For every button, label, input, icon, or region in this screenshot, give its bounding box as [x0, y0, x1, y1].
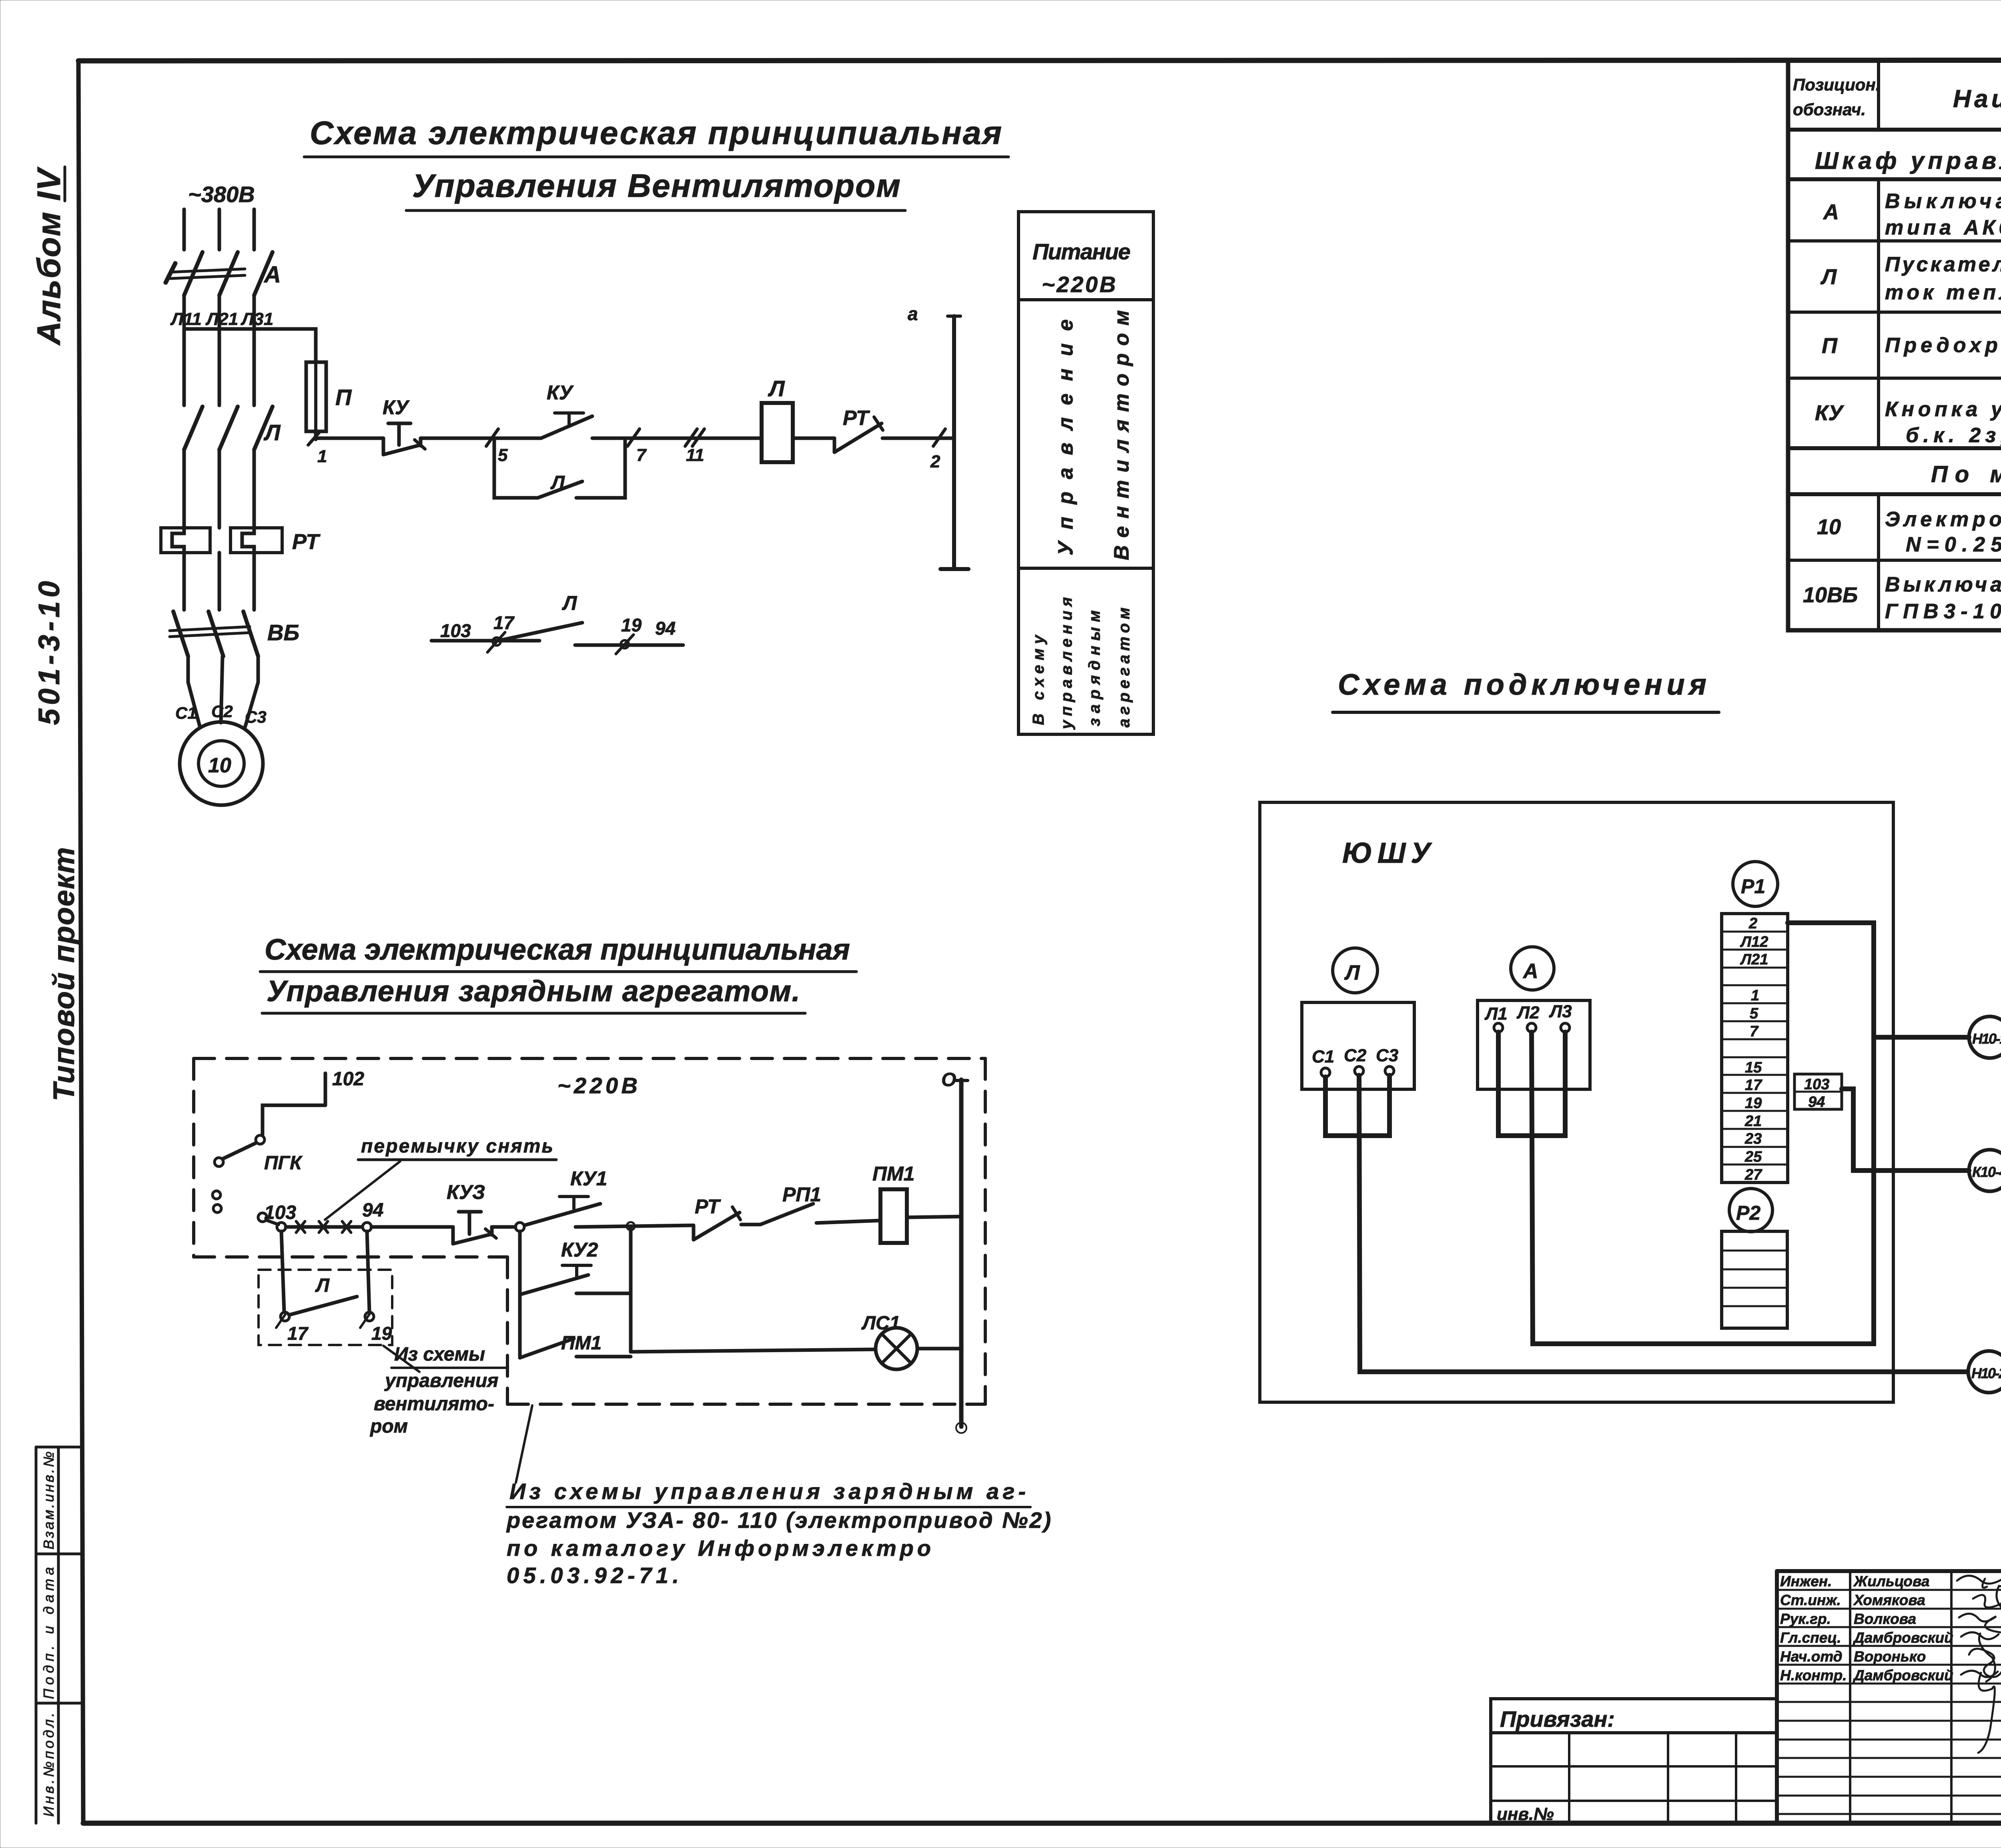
- dashed boundary box: [194, 1058, 985, 1404]
- svg-text:РТ: РТ: [843, 407, 870, 430]
- svg-text:Рук.гр.: Рук.гр.: [1780, 1611, 1831, 1627]
- svg-text:Дамбровский: Дамбровский: [1853, 1667, 1953, 1684]
- branch vertical at node KU1: [518, 1231, 522, 1358]
- svg-text:перемычку снять: перемычку снять: [361, 1136, 553, 1157]
- svg-text:Хомякова: Хомякова: [1853, 1592, 1925, 1608]
- svg-text:Н10-1: Н10-1: [1972, 1030, 2001, 1047]
- label В схему управления зарядным агрегатом (rotated): [1030, 634, 1047, 725]
- svg-text:Управления Вентилятором: Управления Вентилятором: [412, 168, 900, 204]
- svg-text:ток теплового реле 1.25А: ток теплового реле 1.25А: [1885, 281, 2001, 304]
- svg-text:ЛС1: ЛС1: [861, 1313, 900, 1334]
- motor 10 outer circle: [180, 722, 263, 805]
- component table: [1788, 60, 2001, 630]
- wire RT to node 2: [882, 437, 954, 440]
- wire fuse to node 1: [314, 431, 318, 439]
- svg-text:103: 103: [1804, 1076, 1829, 1093]
- node 5: [486, 429, 508, 465]
- svg-text:Шкаф управления ЮШУ (ШУ5101-03: Шкаф управления ЮШУ (ШУ5101-03В2А): [1815, 147, 2001, 174]
- self-hold branch wire: [494, 438, 538, 498]
- svg-text:11: 11: [686, 445, 704, 465]
- label Управление Вентилятором (rotated): [1054, 319, 1077, 555]
- svg-text:вентилято-: вентилято-: [374, 1393, 494, 1415]
- svg-text:Наименование: Наименование: [1953, 85, 2001, 113]
- svg-text:19: 19: [621, 615, 642, 635]
- phase wire L2 lower: [218, 451, 221, 528]
- switch VB crossbar: [170, 627, 250, 637]
- wire RP1 to PM1: [816, 1221, 880, 1223]
- svg-text:К10-4: К10-4: [1972, 1164, 2001, 1180]
- svg-text:С3: С3: [245, 708, 267, 726]
- svg-text:94: 94: [362, 1200, 383, 1221]
- svg-text:17: 17: [1745, 1077, 1762, 1094]
- privyazan box: [1491, 1699, 1777, 1733]
- fuse P: [306, 362, 326, 431]
- svg-text:501-3-10: 501-3-10: [32, 581, 66, 725]
- svg-text:1: 1: [317, 447, 327, 466]
- svg-text:23: 23: [1744, 1130, 1762, 1147]
- phase wire L3 below RT: [253, 553, 256, 610]
- terminal strip P1: [1722, 914, 1788, 1183]
- table header texts: [1793, 75, 2001, 119]
- phase wire L2 below RT: [218, 553, 221, 610]
- svg-text:регатом УЗА- 80- 110 (электроп: регатом УЗА- 80- 110 (электропривод №2): [506, 1507, 1051, 1533]
- svg-text:19: 19: [371, 1323, 392, 1344]
- svg-text:Л2: Л2: [1516, 1003, 1540, 1022]
- table row A: [1823, 190, 2001, 239]
- breaker A crossbar: [166, 263, 245, 283]
- wire PM1 to bus O: [907, 1217, 961, 1217]
- svg-text:Электродвигатель типа В63А4: Электродвигатель типа В63А4: [1885, 508, 2001, 531]
- terminal pins C1 C2 C3: [1321, 1068, 1330, 1077]
- svg-text:Питание: Питание: [1033, 239, 1131, 264]
- svg-text:С3: С3: [1376, 1046, 1398, 1065]
- svg-text:КУ1: КУ1: [570, 1167, 607, 1190]
- svg-text:Из схемы: Из схемы: [394, 1344, 485, 1365]
- breaker A terminal box: [1478, 1000, 1590, 1089]
- svg-text:Л12: Л12: [1740, 934, 1768, 950]
- svg-text:Л: Л: [768, 376, 785, 401]
- svg-text:КУ2: КУ2: [561, 1239, 598, 1261]
- wire KU3 to node: [492, 1225, 515, 1229]
- node 103: [264, 1202, 296, 1231]
- svg-text:05.03.92-71.: 05.03.92-71.: [507, 1563, 679, 1588]
- svg-text:Вентилятором: Вентилятором: [1110, 310, 1133, 560]
- contactor coil L: [762, 403, 793, 462]
- svg-text:25: 25: [1744, 1148, 1762, 1165]
- node 11: [685, 429, 704, 465]
- P1 terminal numbers: [1740, 915, 1768, 1183]
- svg-text:Схема электрическая принципиал: Схема электрическая принципиальная: [265, 933, 850, 966]
- signature squiggles: [1957, 1576, 2001, 1753]
- svg-text:Жильцова: Жильцова: [1853, 1573, 1929, 1589]
- svg-text:по каталогу Информэлектро: по каталогу Информэлектро: [507, 1535, 931, 1561]
- privyazan grid: [1491, 1733, 1777, 1824]
- contactor L terminal box: [1302, 1002, 1414, 1089]
- title block outer: [1777, 1571, 2001, 1823]
- phase wire L3 mid: [253, 296, 256, 405]
- note Из схемы управления зарядным агрегатом: [506, 1405, 1051, 1588]
- signature table grid: [1777, 1571, 2001, 1823]
- table row 10: [1817, 508, 2001, 556]
- aux contact PM1 (NO): [520, 1333, 631, 1358]
- svg-text:Л: Л: [1344, 961, 1360, 984]
- left margin label: Типовой проект: [47, 847, 80, 1101]
- push button KU (stop, NC): [383, 396, 425, 455]
- phase wire L3 lower: [253, 451, 256, 528]
- self-hold branch wire right: [576, 438, 625, 498]
- motor 10 inner circle: [198, 741, 244, 786]
- svg-text:2: 2: [1748, 915, 1757, 932]
- svg-text:10: 10: [208, 754, 231, 777]
- svg-text:17: 17: [287, 1323, 309, 1344]
- motor feeder wires: [188, 656, 258, 728]
- node 94: [362, 1200, 383, 1231]
- control wire node7 to node 11: [592, 437, 762, 440]
- svg-text:Дамбровский: Дамбровский: [1853, 1630, 1953, 1646]
- svg-text:Предохранитель типа ПРС-6-П: Предохранитель типа ПРС-6-П: [1885, 334, 2001, 357]
- wire 103/94 to K10-4: [1842, 1089, 1969, 1171]
- svg-text:~380В: ~380В: [188, 182, 255, 207]
- contactor coil PM1: [872, 1163, 914, 1243]
- note Из схемы управления вентилятором: [369, 1344, 507, 1437]
- svg-text:103: 103: [264, 1202, 296, 1223]
- svg-text:Управление: Управление: [1054, 319, 1077, 555]
- svg-text:зарядным: зарядным: [1086, 610, 1103, 726]
- svg-text:типа АК63-3МГ, Ун.р.=1.6А: типа АК63-3МГ, Ун.р.=1.6А: [1885, 216, 2001, 239]
- cable marker H10-2: [1968, 1351, 2001, 1393]
- svg-text:Н10-2: Н10-2: [1971, 1365, 2001, 1381]
- svg-text:О: О: [941, 1069, 956, 1090]
- svg-text:ВБ: ВБ: [267, 620, 299, 645]
- svg-text:Ст.инж.: Ст.инж.: [1780, 1592, 1841, 1608]
- wire KU1 to RT: [575, 1225, 694, 1227]
- svg-text:Л: Л: [1820, 265, 1837, 289]
- svg-text:17: 17: [493, 612, 515, 633]
- power column box: [1019, 212, 1153, 734]
- svg-text:Л1: Л1: [1484, 1004, 1508, 1024]
- phase wire L3 top: [253, 209, 256, 250]
- svg-text:КУ: КУ: [547, 381, 574, 404]
- svg-text:ЮШУ: ЮШУ: [1342, 837, 1432, 869]
- cable marker H10-1: [1969, 1016, 2001, 1058]
- wire terminal 2: [1788, 920, 1874, 925]
- svg-text:Схема подключения: Схема подключения: [1338, 668, 1706, 701]
- svg-text:10: 10: [1817, 515, 1841, 539]
- svg-text:Л21: Л21: [205, 309, 238, 329]
- phase wire L2 mid: [218, 296, 221, 405]
- left bottom stamp strip: [36, 1447, 82, 1823]
- svg-text:Инжен.: Инжен.: [1780, 1573, 1832, 1589]
- svg-text:Позицион.: Позицион.: [1793, 75, 1880, 94]
- svg-text:С2: С2: [1344, 1046, 1367, 1065]
- svg-text:С2: С2: [211, 702, 233, 721]
- svg-text:ром: ром: [369, 1416, 408, 1437]
- svg-text:С1: С1: [1312, 1047, 1334, 1066]
- switch VB blades: [173, 611, 258, 656]
- push button KU3 (NC): [447, 1181, 496, 1244]
- svg-text:А: А: [1522, 960, 1538, 983]
- jumper section with x marks: [286, 1221, 362, 1233]
- svg-text:102: 102: [332, 1068, 364, 1090]
- svg-text:7: 7: [1750, 1023, 1759, 1040]
- svg-text:Н.контр.: Н.контр.: [1780, 1667, 1847, 1684]
- breaker A blades: [184, 252, 273, 295]
- push button KU (start, NO): [541, 381, 592, 438]
- junction dot: [627, 1222, 635, 1230]
- terminal strip P1 circle: [1733, 862, 1778, 906]
- node 2: [930, 429, 945, 471]
- svg-text:РП1: РП1: [782, 1183, 821, 1206]
- svg-text:Альбом IV: Альбом IV: [31, 166, 67, 346]
- aux contact L box (dashed): [259, 1231, 392, 1345]
- svg-text:Подп. и дата: Подп. и дата: [40, 1567, 57, 1699]
- title underline: [304, 156, 1009, 158]
- svg-text:РТ: РТ: [292, 530, 321, 554]
- svg-text:94: 94: [655, 618, 676, 639]
- svg-text:~220В: ~220В: [1042, 272, 1116, 297]
- svg-text:103: 103: [440, 620, 471, 641]
- svg-text:21: 21: [1744, 1113, 1762, 1130]
- title underline: [406, 209, 905, 212]
- aux contact L (to charging scheme) wires 17-19: [431, 592, 683, 654]
- svg-text:РТ: РТ: [695, 1195, 721, 1218]
- svg-text:Воронько: Воронько: [1854, 1648, 1926, 1665]
- svg-text:А: А: [263, 262, 281, 288]
- svg-text:Волкова: Волкова: [1854, 1611, 1916, 1627]
- svg-text:ПГК: ПГК: [264, 1152, 303, 1174]
- svg-text:КУ: КУ: [1815, 401, 1844, 425]
- svg-text:~220В: ~220В: [557, 1073, 638, 1098]
- terminal strip P2 circle: [1729, 1189, 1772, 1232]
- svg-text:Управления зарядным агрегатом.: Управления зарядным агрегатом.: [267, 974, 800, 1008]
- svg-text:Инв.№подл.: Инв.№подл.: [40, 1713, 57, 1817]
- signature rows text: [1780, 1573, 1953, 1684]
- svg-text:агрегатом: агрегатом: [1115, 607, 1133, 728]
- svg-text:5: 5: [498, 445, 508, 465]
- lamp LS1 wire: [631, 1349, 876, 1352]
- bus O: [941, 1069, 968, 1433]
- cable marker K10-4: [1969, 1150, 2001, 1191]
- terminal pins L1 L2 L3: [1494, 1023, 1503, 1032]
- table row 10VB: [1803, 573, 2001, 623]
- svg-text:ГПВ3-10, ~380В; 6.3А: ГПВ3-10, ~380В; 6.3А: [1885, 600, 2001, 623]
- YUSHU cabinet box: [1260, 802, 1893, 1402]
- svg-text:Л31: Л31: [241, 309, 273, 329]
- svg-text:П: П: [335, 385, 352, 410]
- svg-text:управления: управления: [1058, 597, 1075, 730]
- left margin label: Альбом IV: [31, 166, 67, 346]
- svg-text:Кнопка управления типа КСР1-12: Кнопка управления типа КСР1-12: [1885, 398, 2001, 421]
- svg-text:Р2: Р2: [1736, 1202, 1760, 1224]
- rotary switch PGK: [213, 1105, 325, 1225]
- svg-text:Схема электрическая принципи: Схема электрическая принципиальная: [310, 115, 1002, 151]
- svg-text:Л: Л: [263, 420, 281, 445]
- wire C2 to H10-2: [1359, 1075, 1967, 1372]
- wire L2 supply loop to terminal 2: [1532, 923, 1874, 1344]
- svg-text:Л: Л: [562, 592, 577, 614]
- left margin label: 501-3-10: [32, 581, 66, 725]
- node 102 stub: [325, 1068, 364, 1105]
- phase wire L1 top: [182, 209, 186, 250]
- node 7: [628, 429, 647, 465]
- svg-text:ПМ1: ПМ1: [561, 1333, 602, 1354]
- thermal contact RT (NC): [834, 407, 883, 452]
- svg-text:19: 19: [1745, 1095, 1762, 1112]
- thermal relay RT heater 1: [161, 528, 210, 553]
- svg-text:Привязан:: Привязан:: [1500, 1706, 1615, 1732]
- svg-text:94: 94: [1808, 1094, 1825, 1110]
- svg-text:Нач.отд: Нач.отд: [1780, 1648, 1843, 1665]
- aux contact L (self hold): [538, 472, 582, 498]
- svg-text:КУ: КУ: [383, 396, 410, 419]
- svg-text:Гл.спец.: Гл.спец.: [1780, 1630, 1841, 1646]
- thermal relay RT heater 2: [231, 528, 282, 553]
- svg-text:Типовой проект: Типовой проект: [47, 847, 80, 1101]
- phase bus a: [908, 303, 968, 569]
- wire 94 to KU3: [371, 1225, 453, 1229]
- push button KU1 (NO): [524, 1167, 607, 1225]
- wire C1-C3 bundle: [1325, 1075, 1389, 1136]
- svg-text:15: 15: [1745, 1059, 1762, 1076]
- svg-text:Выключатель автоматический: Выключатель автоматический: [1885, 190, 2001, 213]
- note перемычку снять: [325, 1136, 556, 1220]
- svg-text:б.к. 2з, 2р: б.к. 2з, 2р: [1906, 424, 2001, 447]
- contactor L blades: [184, 407, 273, 450]
- svg-text:а: а: [908, 303, 918, 324]
- svg-text:10ВБ: 10ВБ: [1803, 583, 1858, 607]
- svg-text:Пускатель магнитный типа ПМЕ-1: Пускатель магнитный типа ПМЕ-112: [1885, 253, 2001, 276]
- svg-text:инв.№: инв.№: [1497, 1804, 1554, 1824]
- svg-text:Л3: Л3: [1549, 1002, 1572, 1021]
- junction node: [515, 1223, 524, 1231]
- table row KU: [1815, 398, 2001, 447]
- control wire node1 to KU stop: [316, 437, 383, 440]
- push button KU2 (NO): [520, 1239, 631, 1295]
- svg-text:Из схемы управления зарядным а: Из схемы управления зарядным аг-: [509, 1479, 1026, 1504]
- svg-text:управления: управления: [384, 1370, 499, 1391]
- svg-text:5: 5: [1750, 1005, 1758, 1022]
- svg-text:Л: Л: [550, 472, 565, 493]
- relay contact RP1 (NO): [741, 1183, 821, 1225]
- svg-text:В схему: В схему: [1030, 634, 1047, 725]
- svg-text:1: 1: [1751, 987, 1759, 1004]
- control line node 1: [308, 431, 327, 466]
- phase wire L2 top: [218, 209, 221, 250]
- svg-text:N=0.25кВт: N=0.25кВт: [1906, 533, 2001, 556]
- lamp LS1: [861, 1313, 917, 1369]
- svg-text:ПМ1: ПМ1: [872, 1163, 914, 1185]
- svg-text:Взам.инв.№: Взам.инв.№: [40, 1451, 57, 1549]
- svg-text:Р1: Р1: [1741, 875, 1765, 898]
- phase wire L1 below RT: [182, 553, 186, 610]
- jumper box 103/94: [1794, 1074, 1842, 1110]
- wire coil to RT contact: [793, 437, 834, 440]
- svg-text:С1: С1: [175, 704, 197, 722]
- control tap wire: [184, 329, 316, 362]
- svg-text:Л21: Л21: [1740, 951, 1768, 968]
- phase wire L1 lower: [182, 451, 186, 528]
- lamp to bus wire: [917, 1347, 961, 1351]
- thermal contact RT (NC): [694, 1195, 740, 1240]
- branch vertical at junction: [629, 1226, 633, 1352]
- contactor L circle: [1333, 948, 1377, 993]
- svg-text:обознач.: обознач.: [1793, 100, 1866, 119]
- svg-text:П: П: [1822, 334, 1838, 358]
- svg-text:КУЗ: КУЗ: [447, 1181, 485, 1203]
- wire tap to H10-1: [1874, 1035, 1969, 1040]
- svg-text:Выключатель пакетный типа: Выключатель пакетный типа: [1885, 573, 2001, 596]
- terminal strip P2: [1722, 1231, 1787, 1328]
- control wire KU to node 5: [421, 437, 541, 440]
- svg-text:По месту: По месту: [1931, 461, 2001, 487]
- table row P: [1822, 332, 2001, 358]
- svg-text:2: 2: [930, 452, 940, 471]
- phase wire L1 mid: [182, 296, 186, 405]
- svg-text:27: 27: [1744, 1167, 1762, 1183]
- breaker A circle: [1511, 947, 1554, 990]
- wire L1-L3 bundle: [1498, 1032, 1565, 1136]
- svg-text:А: А: [1823, 200, 1839, 224]
- svg-text:7: 7: [636, 445, 647, 465]
- svg-text:Л: Л: [315, 1275, 330, 1296]
- table row L: [1820, 253, 2001, 304]
